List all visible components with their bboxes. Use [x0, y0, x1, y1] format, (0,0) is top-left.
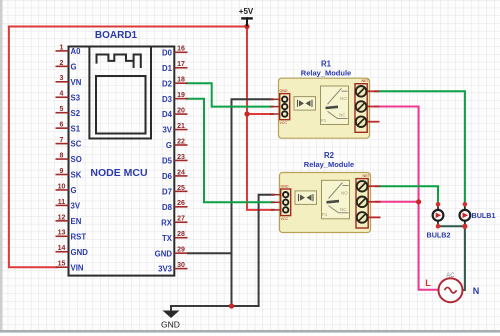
- junction dot neutral join: [462, 224, 467, 229]
- svg-text:29: 29: [177, 247, 185, 254]
- svg-text:L: L: [425, 278, 431, 288]
- svg-text:23: 23: [177, 154, 185, 161]
- svg-text:20: 20: [177, 108, 185, 115]
- svg-text:21: 21: [177, 123, 185, 130]
- wire +5V net: top rail and left loop to VIN: [9, 27, 247, 268]
- svg-text:1: 1: [60, 44, 64, 51]
- svg-text:3V3: 3V3: [158, 265, 173, 274]
- wire D3 (pin19) to R2 IN: [187, 99, 274, 203]
- svg-text:18: 18: [177, 77, 185, 84]
- svg-text:6: 6: [60, 122, 64, 129]
- svg-text:G: G: [166, 141, 172, 150]
- svg-text:17: 17: [177, 61, 185, 68]
- wire GND pin29 to gnd trunk: [188, 252, 232, 254]
- svg-text:NO: NO: [340, 96, 347, 101]
- svg-text:G: G: [71, 62, 77, 71]
- svg-text:P1: P1: [322, 212, 328, 217]
- svg-text:A0: A0: [71, 47, 82, 56]
- svg-text:R1: R1: [321, 60, 332, 69]
- wire gnd trunk vertical + to R1 GND: [232, 99, 273, 306]
- power +5V: [239, 7, 254, 26]
- svg-text:RX: RX: [161, 218, 173, 227]
- svg-text:VCC: VCC: [280, 121, 288, 125]
- svg-text:22: 22: [177, 138, 185, 145]
- svg-text:28: 28: [177, 231, 185, 238]
- wire +5V stem down to relay VCC junction: [247, 25, 273, 114]
- svg-text:26: 26: [177, 200, 185, 207]
- svg-text:G: G: [71, 186, 77, 195]
- svg-text:BULB1: BULB1: [472, 211, 496, 220]
- svg-text:8: 8: [60, 152, 64, 159]
- svg-text:GND: GND: [71, 248, 89, 257]
- svg-text:+5V: +5V: [239, 7, 254, 16]
- svg-text:D1: D1: [162, 64, 173, 73]
- svg-text:NODE MCU: NODE MCU: [90, 167, 147, 179]
- svg-text:D7: D7: [162, 187, 172, 196]
- svg-text:30: 30: [177, 262, 185, 269]
- svg-text:GND: GND: [281, 185, 289, 189]
- svg-text:D8: D8: [162, 203, 173, 212]
- svg-text:SO: SO: [71, 155, 82, 164]
- svg-text:S2: S2: [71, 109, 81, 118]
- svg-text:D4: D4: [162, 110, 173, 119]
- nodemcu pins left 1-15: [56, 44, 89, 272]
- svg-text:14: 14: [58, 245, 66, 252]
- svg-text:SC: SC: [71, 140, 82, 149]
- wire R2 NO to BULB2: [376, 186, 438, 203]
- svg-text:7: 7: [60, 137, 64, 144]
- nodemcu pins right 16-30: [155, 46, 188, 274]
- lamp BULB1: [460, 202, 496, 229]
- svg-text:27: 27: [177, 216, 185, 223]
- AC source: [425, 273, 479, 302]
- svg-text:GND: GND: [280, 89, 288, 93]
- svg-text:3V: 3V: [162, 126, 172, 135]
- svg-text:P1: P1: [321, 118, 327, 123]
- svg-text:NO: NO: [341, 190, 348, 195]
- svg-text:VCC: VCC: [281, 217, 289, 221]
- svg-text:3: 3: [60, 75, 64, 82]
- svg-text:TX: TX: [162, 234, 173, 243]
- svg-text:S3: S3: [71, 93, 81, 102]
- board BOARD1 outline: [69, 30, 175, 276]
- svg-text:D5: D5: [162, 157, 173, 166]
- svg-text:19: 19: [177, 92, 185, 99]
- esp inner shield rect: [96, 76, 146, 134]
- svg-text:4: 4: [60, 91, 64, 98]
- svg-text:10: 10: [58, 183, 66, 190]
- svg-text:D6: D6: [162, 172, 173, 181]
- wire R1 COM to AC L: [375, 107, 438, 290]
- svg-text:15: 15: [58, 261, 66, 268]
- svg-text:D2: D2: [162, 79, 173, 88]
- wire gnd bottom rail: [171, 305, 259, 307]
- svg-text:D3: D3: [162, 95, 173, 104]
- svg-text:5: 5: [60, 106, 64, 113]
- svg-text:R2: R2: [324, 151, 335, 160]
- svg-text:NET: NET: [362, 79, 370, 83]
- svg-text:GND: GND: [155, 249, 173, 258]
- junction dot +5V top: [244, 24, 249, 29]
- svg-text:D0: D0: [162, 48, 173, 57]
- svg-text:12: 12: [58, 214, 66, 221]
- esp module outline: [89, 47, 151, 139]
- svg-text:25: 25: [177, 185, 185, 192]
- relay module R1: [270, 60, 380, 139]
- ground: [161, 306, 180, 330]
- svg-text:S1: S1: [71, 124, 81, 133]
- svg-text:NET: NET: [363, 174, 371, 178]
- svg-text:Relay_Module: Relay_Module: [304, 160, 354, 169]
- svg-text:3V: 3V: [71, 202, 81, 211]
- wire R1 NO to BULB1: [375, 91, 465, 203]
- svg-text:SK: SK: [71, 171, 82, 180]
- relay module R2: [271, 151, 381, 233]
- wire gnd riser to R2 GND: [259, 195, 274, 306]
- wire BULB2 bottom to neutral junction: [438, 225, 465, 228]
- wire BULB1 bottom to AC N: [463, 227, 465, 290]
- svg-text:9: 9: [60, 168, 64, 175]
- svg-text:24: 24: [177, 169, 185, 176]
- svg-text:16: 16: [177, 46, 185, 53]
- wire +5V down to R2 VCC: [247, 114, 274, 210]
- wire R2 COM join pink: [376, 201, 419, 203]
- junction dot VCC split: [244, 111, 249, 116]
- svg-text:11: 11: [58, 199, 66, 206]
- wire D2 (pin18) to R1 IN: [187, 83, 273, 106]
- svg-text:N: N: [473, 286, 480, 296]
- svg-text:Relay_Module: Relay_Module: [301, 69, 351, 78]
- svg-text:NC: NC: [340, 207, 347, 212]
- svg-text:BULB2: BULB2: [427, 231, 451, 240]
- antenna comb: [97, 55, 141, 69]
- lamp BULB2: [427, 202, 451, 240]
- svg-text:BOARD1: BOARD1: [95, 30, 138, 41]
- svg-text:GND: GND: [161, 320, 180, 330]
- svg-text:13: 13: [58, 230, 66, 237]
- svg-text:NC: NC: [339, 113, 346, 118]
- svg-text:RST: RST: [71, 232, 87, 241]
- svg-text:EN: EN: [71, 217, 82, 226]
- svg-text:2: 2: [60, 60, 64, 67]
- junction dot gnd rail: [229, 303, 234, 308]
- svg-text:VN: VN: [71, 78, 82, 87]
- junction dot pink join: [416, 199, 421, 204]
- svg-text:VIN: VIN: [71, 263, 84, 272]
